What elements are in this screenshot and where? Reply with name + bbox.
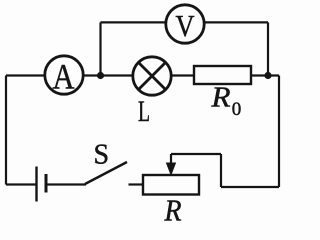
battery long plate bbox=[35, 167, 37, 202]
wire: voltmeter branch right vertical bbox=[267, 22, 269, 75]
wire: left rail bbox=[5, 76, 7, 185]
svg-text:S: S bbox=[94, 140, 110, 171]
svg-text:0: 0 bbox=[232, 99, 242, 120]
svg-text:R: R bbox=[210, 83, 230, 114]
wire: voltmeter branch top horizontal bbox=[101, 21, 269, 23]
ammeter A1 circle bbox=[45, 56, 83, 94]
svg-text:V: V bbox=[176, 8, 196, 43]
switch S blade bbox=[85, 162, 127, 184]
rheostat R rectangle bbox=[143, 175, 199, 195]
svg-text:A: A bbox=[53, 57, 75, 97]
wire: voltmeter branch left vertical bbox=[99, 22, 101, 75]
svg-text:R: R bbox=[164, 193, 182, 225]
wiper arrowhead bbox=[166, 163, 176, 177]
battery short plate bbox=[45, 174, 48, 193]
wire: bottom row left (rail to battery) bbox=[6, 183, 37, 185]
wire: R0 to right rail bbox=[251, 74, 279, 76]
voltmeter V1 circle bbox=[166, 5, 204, 43]
node junction dot left bbox=[97, 72, 104, 79]
svg-text:L: L bbox=[138, 95, 150, 128]
wire: battery to switch bbox=[46, 183, 86, 185]
resistor R0 rectangle bbox=[194, 66, 251, 84]
wire: wiper jog horizontal bbox=[171, 153, 221, 155]
node junction dot right bbox=[264, 72, 271, 79]
wire: right rail down bbox=[278, 76, 280, 188]
lamp L circle bbox=[133, 57, 171, 95]
wire: switch contact to rheostat bbox=[129, 183, 144, 185]
wire: bottom right horizontal to wiper jog bbox=[221, 186, 279, 188]
wire: wiper jog vertical bbox=[220, 154, 222, 187]
wire: middle row (battery loop top) bbox=[6, 74, 194, 76]
wire: wiper arrow stem bbox=[170, 154, 172, 166]
lamp X cross bbox=[139, 63, 166, 90]
